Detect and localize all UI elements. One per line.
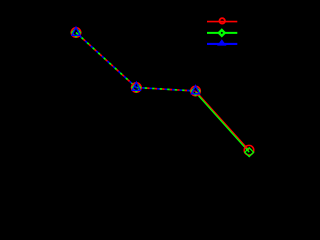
wire: green solid segment P3-P4 <box>196 92 250 152</box>
wire: red dashed polyline P1-P2-P3 <box>76 33 196 92</box>
legend entry blue: line and filled triangle <box>207 39 237 45</box>
marker P3 <box>191 86 201 96</box>
wire: blue dashed polyline P1-P2-P3 <box>76 33 196 92</box>
marker P1: red circle, green diamond, blue triangle <box>71 27 81 37</box>
legend entry green: line and filled diamond <box>207 28 237 37</box>
legend entry red: line and open circle <box>207 18 237 23</box>
marker P4 green diamond <box>245 148 254 157</box>
wire: red solid segment P3-P4 <box>196 91 250 150</box>
marker P2 <box>132 82 142 92</box>
marker P4 red circle <box>244 145 254 155</box>
wire: green dashed polyline P1-P2-P3 <box>76 33 196 92</box>
